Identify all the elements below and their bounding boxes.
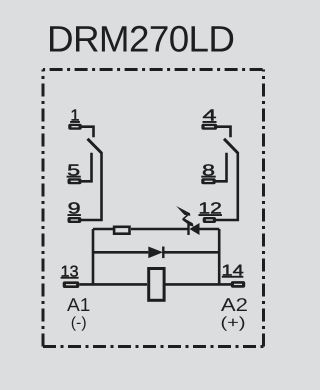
pin label 12 [198,201,222,218]
wire from terminal 1 [82,127,94,138]
terminal 8 [201,178,216,184]
wire rail down to terminal 12 [216,152,238,220]
wire rail down to terminal 9 [81,152,102,220]
dash-dot border frame [43,70,264,347]
switch arm contact 1-9 [88,139,102,153]
wire LED to right rail [200,228,220,231]
pin label 14 [222,262,245,279]
terminal 1 [68,124,82,130]
svg-text:(-): (-) [71,314,87,331]
wire terminal 13 to coil [79,283,147,286]
svg-text:A1: A1 [67,294,90,315]
diode D1 [148,247,163,259]
pin label 4 [203,108,217,125]
LED D2 [189,223,200,235]
resistor R1 [114,227,129,234]
wire diode to right rail [163,251,219,254]
right rail of coil circuit [218,229,221,284]
terminal 9 [68,217,82,223]
svg-text:A2: A2 [221,294,248,315]
pin label 9 [68,201,81,218]
terminal 4 [201,124,217,130]
wire from terminal 8 open contact [216,153,227,182]
pin label 8 [201,162,216,179]
wire from terminal 4 [217,127,231,138]
relay coil K1 [149,269,164,301]
wire from terminal 5 open contact [82,153,92,182]
wire resistor to LED [131,228,188,231]
terminal 13 [63,281,80,288]
terminal 5 [68,178,82,184]
pin label 13 [61,263,79,280]
LED flash arrow [176,206,193,227]
switch arm contact 4-12 [224,139,238,153]
svg-text:(+): (+) [221,314,246,331]
svg-text:DRM270LD: DRM270LD [47,19,234,60]
terminal 12 [203,217,216,223]
pin label 1 [70,108,80,125]
terminal 14 [231,281,245,288]
pin label 5 [67,162,81,179]
left rail of coil circuit [93,229,113,284]
wire middle left [93,251,148,254]
wire coil to terminal 14 [165,283,231,286]
